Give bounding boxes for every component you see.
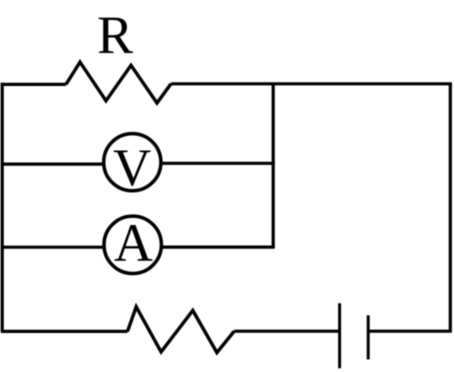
wire: right rail (vertical, top-right to bottom-right corner) (449, 83, 452, 332)
svg-text:R: R (97, 5, 133, 65)
wire: ammeter branch right segment (162, 246, 275, 249)
wire: middle vertical tap (node from top rail down to ammeter branch) (272, 84, 275, 247)
battery BT1 positive plate (long) (338, 303, 341, 368)
wire: voltmeter branch left segment (1, 163, 103, 166)
wire: rheostat to battery positive plate (234, 330, 339, 333)
wire: battery negative plate to bottom-right corner (368, 330, 452, 333)
resistor R (zigzag) (66, 62, 171, 103)
wire: voltmeter branch right segment (162, 162, 275, 165)
svg-text:A: A (114, 213, 153, 273)
rheostat R2 (zigzag) (128, 307, 235, 353)
wire: top rail right segment (resistor R to top-right corner) (171, 82, 452, 85)
wire: left rail (vertical, top-left to bottom-left corner) (1, 83, 4, 332)
svg-text:V: V (113, 139, 151, 197)
battery BT1 negative plate (short) (367, 315, 370, 359)
ammeter A (circle) (104, 216, 161, 273)
voltmeter V (circle) (104, 134, 161, 191)
wire: bottom rail left segment (bottom-left corner to rheostat) (1, 330, 128, 333)
wire: top rail left segment (left rail to resistor R) (1, 83, 66, 86)
wire: ammeter branch left segment (1, 246, 103, 249)
